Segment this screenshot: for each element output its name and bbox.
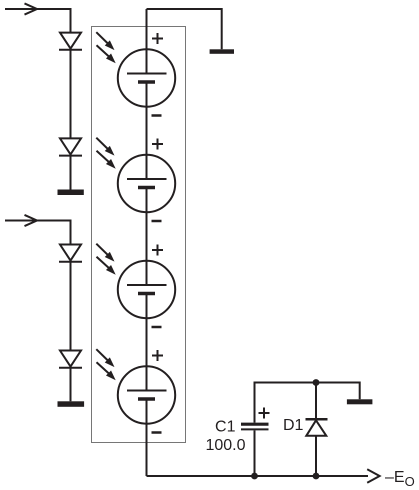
node: junction dot (D1 / bottom rail) xyxy=(313,473,320,480)
label + (cell 4) xyxy=(152,350,163,361)
wire: main vertical segment above cell 1 xyxy=(146,9,148,74)
photovoltaic cell PV1 xyxy=(118,49,175,106)
arrowhead on input 1 wire xyxy=(25,3,38,14)
diode D1 xyxy=(306,419,328,436)
wire: between cell 1 and cell 2 xyxy=(146,82,148,179)
photovoltaic cell PV3 xyxy=(118,261,175,318)
arrowhead on input 2 wire xyxy=(25,215,38,226)
light arrows (cell 4) xyxy=(96,349,115,380)
diode (chain 2, lower) xyxy=(59,351,82,368)
capacitor C1 xyxy=(241,424,269,429)
wire: cell 4 to bottom rail xyxy=(146,399,148,476)
module box around photovoltaic cells xyxy=(92,27,186,443)
label - (cell 2) xyxy=(152,220,162,223)
wire: bottom output rail xyxy=(147,475,369,477)
wire: capacitor upper lead and top rail xyxy=(255,383,360,423)
label + (cell 3) xyxy=(152,245,163,256)
wire: input 1 horizontal lead xyxy=(5,9,71,33)
light arrows (cell 3) xyxy=(96,244,115,275)
light arrows (cell 2) xyxy=(96,138,115,169)
wire: chain 1 between diodes xyxy=(70,50,72,139)
photovoltaic cell PV2 xyxy=(118,155,175,212)
light arrows (cell 1) xyxy=(96,32,115,63)
diode (chain 2, upper) xyxy=(59,245,82,262)
wire: chain 1 to ground xyxy=(70,156,72,190)
svg-text:100.0: 100.0 xyxy=(205,437,245,454)
svg-text:–EO: –EO xyxy=(385,469,415,489)
svg-text:C1: C1 xyxy=(215,419,236,436)
node: junction dot (cap / bottom rail) xyxy=(251,473,258,480)
wire: chain 2 between diodes xyxy=(70,262,72,351)
diode (chain 1, lower) xyxy=(59,138,82,155)
ground (top right) xyxy=(210,49,234,54)
wire: between cell 3 and cell 4 xyxy=(146,294,148,391)
wire: D1 lower lead xyxy=(315,436,317,476)
wire: D1 upper lead xyxy=(315,383,317,420)
ground (bottom right) xyxy=(347,399,373,404)
arrowhead on output xyxy=(367,469,379,482)
label - (cell 4) xyxy=(152,431,162,434)
wire: chain 2 to ground xyxy=(70,368,72,402)
node: junction dot (D1 / top rail) xyxy=(313,379,320,386)
label + (capacitor) xyxy=(259,408,270,419)
svg-text:D1: D1 xyxy=(283,417,304,434)
label + (cell 2) xyxy=(152,139,163,150)
label - (cell 1) xyxy=(152,114,162,117)
label - (cell 3) xyxy=(152,326,162,329)
ground (chain 2) xyxy=(58,401,85,407)
photovoltaic cell PV4 xyxy=(118,366,175,423)
ground (chain 1) xyxy=(58,190,84,196)
label + (cell 1) xyxy=(152,33,163,44)
diode (chain 1, upper) xyxy=(59,33,82,50)
wire: between cell 2 and cell 3 xyxy=(146,188,148,286)
wire: capacitor lower lead xyxy=(254,430,256,476)
wire: input 2 horizontal lead xyxy=(5,221,71,245)
wire: cell stack top to ground xyxy=(147,9,222,49)
